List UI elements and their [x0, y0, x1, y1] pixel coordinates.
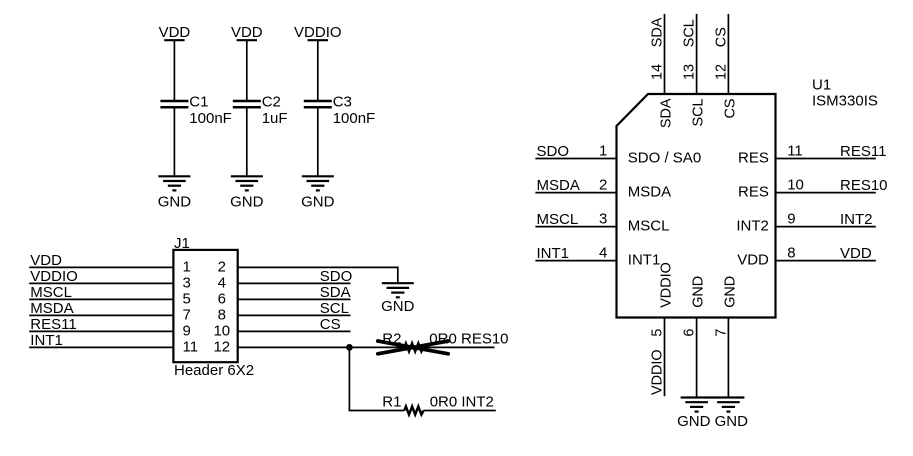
svg-text:8: 8: [787, 245, 795, 262]
svg-text:CS: CS: [320, 316, 341, 333]
connector J1 body: [173, 250, 237, 362]
capacitor C3: [304, 101, 332, 107]
resistor R2: [404, 343, 423, 351]
svg-text:SCL: SCL: [682, 19, 698, 47]
svg-text:4: 4: [599, 245, 607, 262]
wire U1 pin 10 to RES10: [776, 192, 876, 194]
resistor R1: [404, 406, 423, 414]
power symbol VDDIO (C3 column): [294, 24, 342, 41]
junction INT1 node: [346, 344, 353, 351]
svg-text:10: 10: [787, 177, 804, 194]
svg-text:VDDIO: VDDIO: [659, 262, 675, 308]
wire C2 to ground: [246, 109, 248, 177]
svg-text:SDO / SA0: SDO / SA0: [628, 150, 701, 167]
svg-text:SCL: SCL: [691, 99, 707, 127]
power symbol VDD (C1 column): [159, 24, 191, 41]
svg-text:3: 3: [183, 275, 191, 292]
svg-text:SCL: SCL: [320, 300, 349, 317]
svg-text:CS: CS: [714, 27, 730, 47]
svg-text:14: 14: [650, 64, 666, 80]
power symbol VDD (C2 column): [231, 24, 263, 41]
svg-text:11: 11: [183, 339, 199, 356]
svg-text:5: 5: [650, 329, 666, 337]
svg-text:VDD: VDD: [159, 24, 191, 41]
wire VDD to C2: [246, 41, 248, 100]
wire MSCL to U1 pin 3: [535, 226, 616, 228]
capacitor C1: [160, 101, 188, 107]
wire U1 pin 7 to ground: [727, 318, 729, 398]
wire MSDA to J1 pin 7: [29, 314, 173, 316]
ground (C1): [158, 176, 192, 210]
svg-text:RES11: RES11: [840, 143, 886, 160]
svg-text:3: 3: [599, 211, 607, 228]
svg-text:INT2: INT2: [840, 211, 873, 228]
svg-text:GND: GND: [301, 193, 335, 210]
svg-text:100nF: 100nF: [333, 110, 376, 127]
wire junction to R1: [349, 347, 404, 410]
wire C1 to ground: [173, 109, 175, 177]
svg-text:7: 7: [714, 329, 730, 337]
wire VDD to C1: [173, 41, 175, 100]
wire U1 pin 8 to VDD: [776, 260, 876, 262]
capacitor C2: [233, 101, 261, 107]
DNP cross over R2: [378, 341, 448, 354]
svg-text:CS: CS: [722, 99, 738, 119]
svg-text:SDO: SDO: [320, 268, 353, 285]
wire U1 pin 11 to RES11: [776, 158, 876, 160]
svg-text:1: 1: [599, 143, 607, 160]
svg-text:RES10: RES10: [840, 177, 888, 194]
svg-text:8: 8: [218, 307, 226, 324]
wire J1 pin 12 to R2: [238, 346, 405, 348]
wire MSDA to U1 pin 2: [535, 192, 616, 194]
wire J1 pin 2 to ground: [238, 267, 398, 283]
svg-text:VDD: VDD: [231, 24, 263, 41]
ground (C2): [230, 176, 264, 210]
op-amp U1 body ISM330IS: [617, 94, 776, 318]
wire VDD to J1 pin 1: [29, 266, 173, 268]
svg-text:INT1: INT1: [537, 245, 570, 262]
wire MSCL to J1 pin 5: [29, 298, 173, 300]
svg-text:SDA: SDA: [650, 17, 666, 47]
svg-text:12: 12: [714, 64, 730, 80]
svg-text:SDA: SDA: [659, 98, 675, 128]
wire J1 pin 6 to SDA: [238, 298, 351, 300]
wire R1 to INT2: [424, 410, 496, 412]
svg-text:R2: R2: [382, 331, 401, 348]
wire INT1 to J1 pin 11: [29, 346, 173, 348]
svg-text:SDO: SDO: [537, 143, 570, 160]
svg-text:C1: C1: [189, 94, 208, 111]
svg-text:SDA: SDA: [320, 284, 351, 301]
svg-text:RES: RES: [738, 184, 769, 201]
svg-text:VDD: VDD: [840, 245, 872, 262]
svg-text:0R0 INT2: 0R0 INT2: [430, 394, 494, 411]
wire SDO to U1 pin 1: [535, 158, 616, 160]
wire INT1 to U1 pin 4: [535, 260, 616, 262]
ground (C3): [301, 176, 335, 210]
svg-text:C3: C3: [333, 94, 352, 111]
svg-text:GND: GND: [381, 298, 415, 315]
svg-text:Header 6X2: Header 6X2: [174, 362, 254, 379]
svg-text:GND: GND: [230, 193, 264, 210]
svg-text:MSCL: MSCL: [628, 218, 670, 235]
svg-text:INT2: INT2: [736, 218, 769, 235]
svg-text:GND: GND: [691, 276, 707, 308]
ground (U1 pin 7): [712, 398, 744, 412]
svg-text:ISM330IS: ISM330IS: [812, 92, 878, 109]
ground (J1 pin 2): [381, 283, 415, 315]
wire U1 pin 5 to VDDIO: [664, 318, 666, 397]
wire J1 pin 10 to CS: [238, 330, 351, 332]
svg-text:0R0 RES10: 0R0 RES10: [429, 331, 508, 348]
svg-text:13: 13: [682, 64, 698, 80]
svg-text:RES: RES: [738, 150, 769, 167]
svg-text:MSDA: MSDA: [537, 177, 580, 194]
wire J1 pin 8 to SCL: [238, 314, 351, 316]
svg-text:MSCL: MSCL: [537, 211, 579, 228]
svg-text:1uF: 1uF: [262, 110, 288, 127]
svg-text:12: 12: [213, 339, 230, 356]
wire RES11 to J1 pin 9: [29, 330, 173, 332]
svg-text:7: 7: [183, 307, 191, 324]
svg-text:2: 2: [218, 259, 226, 276]
wire C3 to ground: [317, 109, 319, 177]
svg-text:4: 4: [218, 275, 226, 292]
svg-text:100nF: 100nF: [189, 110, 232, 127]
svg-text:MSDA: MSDA: [628, 184, 671, 201]
svg-text:J1: J1: [174, 235, 190, 252]
svg-text:9: 9: [183, 323, 191, 340]
wire J1 pin 4 to SDO: [238, 282, 351, 284]
wire SCL to U1 pin 13: [696, 14, 698, 94]
svg-text:VDDIO: VDDIO: [294, 24, 342, 41]
svg-text:R1: R1: [382, 394, 401, 411]
svg-text:GND GND: GND GND: [677, 413, 748, 430]
wire VDDIO to J1 pin 3: [29, 282, 173, 284]
svg-text:9: 9: [787, 211, 795, 228]
wire SDA to U1 pin 14: [664, 14, 666, 94]
wire CS to U1 pin 12: [727, 14, 729, 94]
svg-text:INT1: INT1: [628, 252, 661, 269]
wire R2 to RES10: [424, 346, 495, 348]
ground (U1 pin 6): [681, 398, 713, 412]
svg-text:C2: C2: [262, 94, 281, 111]
wire VDDIO to C3: [317, 41, 319, 100]
svg-text:VDD: VDD: [737, 252, 769, 269]
svg-text:5: 5: [183, 291, 191, 308]
svg-text:U1: U1: [812, 76, 831, 93]
svg-text:1: 1: [183, 259, 191, 276]
svg-text:10: 10: [213, 323, 230, 340]
svg-text:6: 6: [218, 291, 226, 308]
svg-text:11: 11: [787, 143, 803, 160]
wire U1 pin 6 to ground: [696, 318, 698, 398]
svg-text:GND: GND: [158, 193, 192, 210]
svg-text:VDDIO: VDDIO: [650, 349, 666, 395]
svg-text:6: 6: [682, 329, 698, 337]
wire U1 pin 9 to INT2: [776, 226, 876, 228]
svg-text:2: 2: [599, 177, 607, 194]
svg-text:GND: GND: [722, 276, 738, 308]
